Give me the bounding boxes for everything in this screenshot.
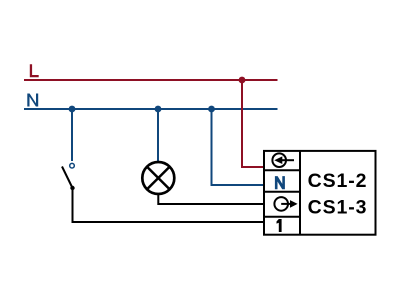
- node junction dot N to switch: [69, 106, 76, 113]
- wire L drop to box top terminal: [242, 80, 264, 167]
- svg-text:CS1-3: CS1-3: [308, 197, 368, 219]
- relay U1 box: [264, 151, 376, 235]
- node junction dot N to box: [208, 106, 215, 113]
- pin input arrow symbol: [272, 153, 294, 167]
- svg-text:CS1-2: CS1-2: [308, 170, 368, 192]
- node N label: [27, 94, 38, 107]
- pin N label: [275, 176, 285, 189]
- switch S1 pivot dot: [70, 186, 74, 190]
- relay U1 terminal column divider: [299, 151, 301, 235]
- wire L line: [24, 79, 278, 81]
- pin 1 label: [277, 219, 282, 232]
- node L label: [30, 64, 39, 77]
- wire N drop to box terminal N: [212, 109, 265, 185]
- wire N drop to lamp: [157, 109, 159, 163]
- node junction dot L to box: [239, 77, 246, 84]
- switch S1 lever: [62, 167, 73, 189]
- node junction dot N to lamp: [155, 106, 162, 113]
- switch S1 contact circle: [70, 163, 75, 168]
- wire switch to box terminal 1: [73, 188, 265, 222]
- wire N line: [24, 108, 278, 110]
- relay U1 cell divider 1: [264, 169, 300, 171]
- relay U1 cell divider 3: [264, 216, 300, 218]
- lamp E1 cross: [147, 167, 170, 190]
- wire N drop to switch: [71, 109, 73, 161]
- relay U1 cell divider 2: [264, 191, 300, 193]
- wire lamp to box terminal out: [158, 194, 264, 204]
- lamp E1 circle: [142, 162, 174, 194]
- pin output arrow symbol: [274, 197, 297, 211]
